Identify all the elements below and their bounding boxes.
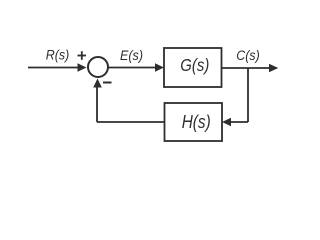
wire: takeoff branch down from output: [247, 68, 249, 122]
plus sign at summing junction: [78, 51, 87, 60]
wire: input R(s) line: [28, 67, 79, 69]
arrowhead into summing junction: [78, 63, 87, 72]
svg-text:C(s): C(s): [236, 48, 260, 63]
block H(s): [165, 103, 223, 141]
arrowhead into bottom of summing junction: [93, 79, 102, 88]
wire: output C(s) line: [222, 67, 270, 69]
svg-text:R(s): R(s): [46, 47, 70, 62]
wire: feedback up segment to junction: [96, 86, 98, 122]
wire: feedback right segment into H(s): [230, 121, 249, 123]
wire: feedback left segment from H(s): [97, 121, 165, 123]
wire: E(s) line from junction to G(s): [109, 67, 157, 69]
svg-text:H(s): H(s): [182, 112, 211, 132]
block G(s): [164, 48, 222, 87]
arrowhead into H(s) block: [222, 118, 231, 127]
svg-text:E(s): E(s): [120, 48, 143, 63]
svg-text:G(s): G(s): [180, 55, 209, 75]
arrowhead output: [269, 64, 278, 73]
summing junction circle: [88, 57, 108, 77]
minus sign at summing junction: [103, 82, 112, 84]
arrowhead into G(s) block: [155, 63, 164, 72]
